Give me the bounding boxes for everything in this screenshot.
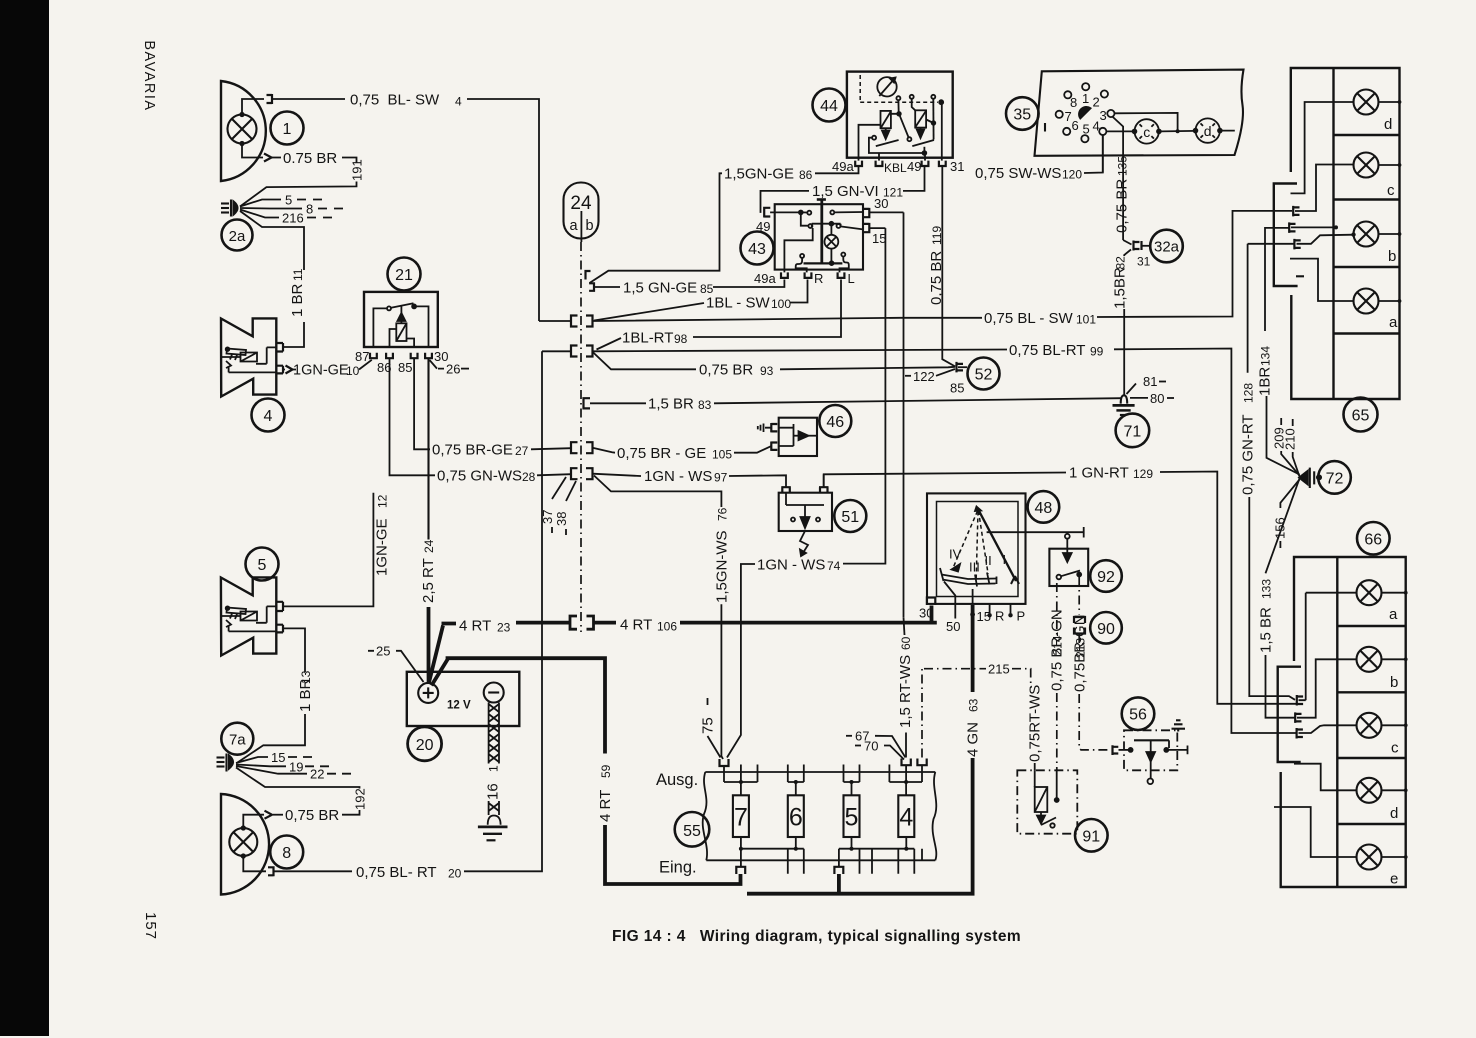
svg-text:1,5GN-GE: 1,5GN-GE: [724, 166, 794, 183]
svg-text:13: 13: [299, 670, 313, 684]
ref circle 51: [834, 500, 866, 532]
wire 1GN-WS 74: [843, 228, 885, 563]
svg-text:72: 72: [1326, 470, 1344, 487]
svg-text:R: R: [995, 609, 1004, 624]
wire 0,75 BR 135 from pin3: [1112, 117, 1123, 241]
wire 1,5 BR 83: [590, 402, 646, 404]
wire 0,75 BR 93: [593, 352, 696, 369]
connector 90 on wire 213: [1078, 577, 1080, 615]
ground 2a symbol: [221, 200, 238, 217]
svg-text:105: 105: [712, 448, 732, 462]
wire 1,5 BR 82 to ground 71: [1124, 250, 1131, 257]
ref circle 35: [1006, 97, 1039, 130]
label 80: [1130, 397, 1148, 399]
bracket at row 85/86: [586, 271, 595, 291]
wire 1GN-GE 12 from horn 5: [283, 493, 373, 607]
svg-text:a: a: [569, 218, 578, 234]
svg-text:2a: 2a: [229, 228, 246, 245]
comp 43 pin brackets 30 and 15 (right): [864, 208, 870, 218]
svg-text:32a: 32a: [1154, 239, 1180, 256]
svg-text:213: 213: [1074, 638, 1088, 658]
svg-text:1GN - WS: 1GN - WS: [757, 556, 825, 573]
ref circle 4: [252, 399, 285, 432]
wire 192 to lamp 8: [236, 768, 360, 789]
svg-text:122: 122: [913, 369, 935, 384]
svg-text:8: 8: [306, 202, 313, 217]
ref circle 65: [1344, 398, 1378, 432]
svg-text:216: 216: [282, 211, 304, 226]
horn 5 terminal tabs: [277, 602, 283, 633]
svg-text:Ausg.: Ausg.: [656, 771, 698, 789]
svg-text:d: d: [1384, 116, 1392, 133]
steering/ignition lock 91: [1017, 770, 1077, 833]
lamp 66d: [1357, 778, 1382, 803]
comp 48 pin 30 bracket: [927, 598, 935, 606]
wire 2,5 RT 24 relay pin30 to battery: [427, 358, 429, 539]
svg-text:91: 91: [1082, 828, 1100, 845]
rear lamp cluster 66 box: [1281, 557, 1406, 887]
svg-text:1,5 RT-WS: 1,5 RT-WS: [897, 655, 914, 728]
svg-text:1,5 GN-GE: 1,5 GN-GE: [623, 280, 697, 297]
thick wire 4 RT 23 battery to bus: [429, 624, 456, 685]
svg-text:93: 93: [760, 364, 774, 378]
svg-text:4: 4: [455, 95, 462, 109]
svg-text:129: 129: [1133, 467, 1153, 481]
relay 21 box: [364, 292, 438, 347]
gauge c: [1133, 119, 1161, 143]
svg-text:II: II: [985, 553, 992, 568]
labels 37 38 with leaders: [552, 477, 576, 501]
svg-text:0,75 BR: 0,75 BR: [285, 807, 339, 824]
svg-text:87: 87: [355, 349, 369, 364]
svg-text:55: 55: [683, 823, 701, 840]
horn 5: [221, 577, 276, 655]
ref circle 2a: [222, 220, 253, 251]
wire 1,5 GN-VI 121: [761, 191, 810, 213]
svg-text:1BL - SW: 1BL - SW: [706, 295, 770, 312]
lamp 65a: [1354, 289, 1379, 314]
svg-text:1: 1: [487, 765, 501, 772]
wire 0,75 BR-GE 27: [414, 358, 430, 449]
wire 209 stub: [1281, 451, 1299, 476]
svg-text:133: 133: [1260, 579, 1274, 599]
svg-text:0,75 GN-WS: 0,75 GN-WS: [437, 468, 522, 485]
svg-text:4 RT: 4 RT: [620, 617, 652, 634]
svg-text:3: 3: [1100, 108, 1107, 123]
svg-text:1,5 BR: 1,5 BR: [648, 396, 694, 413]
svg-text:106: 106: [657, 620, 677, 634]
svg-text:81: 81: [1143, 374, 1157, 389]
svg-text:b: b: [585, 218, 593, 234]
lamp 66b: [1357, 647, 1382, 672]
svg-text:135: 135: [1116, 156, 1130, 176]
lamp 8 housing: [221, 794, 269, 895]
svg-text:KBL: KBL: [884, 161, 907, 175]
svg-text:11: 11: [291, 268, 305, 281]
connector chevron: [264, 154, 272, 162]
svg-text:1GN-GE: 1GN-GE: [293, 363, 349, 379]
ref circle 7a: [221, 723, 253, 755]
labels 67 70: [846, 735, 852, 737]
ref circle 44: [813, 89, 846, 122]
wire 1GN-WS 97: [593, 474, 642, 476]
svg-text:24: 24: [570, 193, 592, 214]
svg-text:76: 76: [716, 507, 730, 521]
svg-text:1 GN-RT: 1 GN-RT: [1069, 465, 1129, 482]
wire 156 stub: [1280, 480, 1299, 509]
svg-text:4 RT: 4 RT: [459, 618, 491, 635]
65 spare pin dash: [1296, 275, 1304, 277]
flasher relay 51: [779, 493, 832, 531]
pin 15 with thick wire 4 GN 63: [970, 612, 975, 617]
svg-text:48: 48: [1035, 500, 1053, 517]
svg-text:c: c: [1143, 124, 1150, 140]
svg-text:a: a: [1389, 314, 1398, 331]
svg-text:86: 86: [799, 168, 813, 182]
rear lamp cluster 65 box: [1291, 68, 1400, 399]
wire 19: [236, 765, 286, 767]
relay 21 pin brackets 87 86 85 30: [370, 353, 377, 359]
wire 214 dash-dot from 92: [1056, 583, 1058, 637]
svg-text:c: c: [1391, 740, 1399, 757]
ref circle 48: [1028, 491, 1060, 523]
svg-text:4 GN: 4 GN: [965, 722, 982, 757]
wire 1,5 GN-GE 86: [590, 173, 723, 283]
svg-text:7a: 7a: [229, 732, 246, 749]
svg-text:10: 10: [346, 364, 360, 378]
wire 0,75 BL-RT 99 row: [542, 350, 1007, 352]
svg-text:b: b: [1390, 674, 1398, 691]
svg-text:5: 5: [285, 193, 292, 208]
svg-text:60: 60: [899, 636, 913, 650]
comp 48 rotary switch: [940, 507, 1019, 619]
fuse 6: [788, 795, 804, 837]
svg-text:7: 7: [734, 804, 748, 832]
svg-text:71: 71: [1124, 424, 1142, 441]
door switch 56: [1122, 697, 1155, 730]
wire 0,75 BL-SW 4: [273, 98, 345, 100]
svg-text:0,75 BR: 0,75 BR: [928, 251, 945, 305]
65 pin a stub: [1290, 259, 1354, 301]
wire from 43 pin15 down: [869, 227, 885, 229]
lamp 66a: [1357, 580, 1382, 605]
svg-text:82: 82: [1114, 256, 1128, 270]
svg-text:27: 27: [515, 444, 529, 458]
svg-text:63: 63: [967, 698, 981, 712]
wire 1 BR 11 to horn 4: [240, 211, 304, 270]
wire 210 stub: [1293, 452, 1300, 477]
svg-text:214: 214: [1051, 635, 1065, 655]
svg-text:0,75 GN-RT: 0,75 GN-RT: [1240, 414, 1257, 495]
svg-text:43: 43: [748, 241, 766, 258]
label 81: [1127, 384, 1137, 395]
fuse 4 feed brackets: [902, 759, 911, 766]
svg-text:c: c: [1387, 182, 1395, 199]
fuse 7: [733, 795, 749, 837]
66 connector housing: [1278, 667, 1301, 762]
svg-text:120: 120: [1062, 168, 1082, 182]
fuse bottom bus 5-4: [839, 837, 914, 866]
svg-text:III: III: [969, 560, 980, 575]
ground 71 symbol: [1121, 395, 1128, 403]
svg-text:50: 50: [946, 619, 960, 634]
mini ground at 56 top right: [1172, 720, 1186, 731]
svg-text:46: 46: [826, 414, 844, 431]
svg-text:75: 75: [700, 717, 717, 734]
wire 1BR 134 ground72 to cluster 65: [1267, 396, 1300, 475]
svg-text:1 BR: 1 BR: [289, 283, 306, 317]
battery plus terminal: [418, 683, 438, 703]
svg-text:5: 5: [845, 804, 859, 832]
svg-text:97: 97: [714, 471, 728, 485]
svg-text:49: 49: [907, 159, 921, 174]
svg-text:1,5BR: 1,5BR: [1112, 267, 1129, 309]
svg-text:5: 5: [258, 557, 267, 574]
wire to pin4 down (120): [1102, 135, 1104, 173]
thick pair brackets at row 4RT: [570, 616, 594, 629]
svg-text:1,5 GN-VI: 1,5 GN-VI: [812, 183, 879, 200]
pair brackets at row 101: [571, 316, 593, 327]
svg-text:b: b: [1388, 248, 1396, 265]
svg-text:100: 100: [771, 297, 791, 311]
wire from 48 to steering lock switch 92: [987, 527, 1084, 538]
svg-text:74: 74: [827, 559, 841, 573]
svg-text:99: 99: [1090, 344, 1104, 358]
connector 32a: [1123, 240, 1131, 245]
battery minus terminal: [484, 683, 504, 703]
lamp 1 (front turn indicator left) housing: [221, 81, 266, 181]
comp 43 internals: [770, 200, 863, 273]
wire lamp1 hot lead: [242, 99, 264, 113]
svg-text:Eing.: Eing.: [659, 859, 697, 877]
svg-text:0,75 BL - SW: 0,75 BL - SW: [984, 310, 1073, 327]
svg-text:BAVARIA: BAVARIA: [141, 40, 157, 111]
fuse bottom bus 7-6: [741, 837, 796, 866]
svg-text:1: 1: [283, 121, 292, 138]
svg-text:52: 52: [975, 367, 993, 384]
svg-text:d: d: [1390, 805, 1398, 822]
hazard switch 44 box: [847, 72, 953, 158]
66 bracket 1 (wire 128 to lamp a): [1297, 695, 1303, 706]
65 pin d stub: [1291, 102, 1354, 193]
ground 72 symbol: [1299, 468, 1321, 488]
fuse 5: [844, 795, 860, 837]
65 bracket 2 (wire 134): [1289, 222, 1295, 233]
svg-text:20: 20: [416, 737, 434, 754]
lamp 65d: [1354, 90, 1379, 115]
svg-text:I: I: [1003, 552, 1007, 567]
ground 7a fan: wire 15: [236, 757, 268, 763]
turn signal switch 43 box: [775, 204, 863, 269]
svg-text:128: 128: [1242, 383, 1256, 403]
svg-text:6: 6: [789, 804, 803, 832]
66 pin d stub: [1294, 764, 1357, 791]
single bracket at row 83: [584, 398, 591, 408]
svg-text:0.75 BR: 0.75 BR: [283, 150, 337, 167]
svg-text:4: 4: [264, 408, 273, 425]
svg-text:35: 35: [1013, 107, 1031, 124]
svg-text:26: 26: [446, 362, 460, 377]
svg-text:38: 38: [554, 512, 569, 526]
ref circle 43: [741, 232, 774, 265]
svg-text:20: 20: [448, 867, 462, 881]
svg-text:0,75 BL- RT: 0,75 BL- RT: [356, 864, 437, 881]
65 bracket 3 (wire 128 to lamp b): [1294, 239, 1300, 250]
svg-text:5: 5: [1083, 122, 1090, 137]
thick wire 4 RT 59 battery to fuse box: [432, 658, 606, 753]
ref circle 46: [819, 405, 851, 437]
66 bracket 3 (wire 99 to lamp c): [1297, 728, 1303, 739]
connector on wire 4: [267, 94, 273, 104]
wire 26 stub from pin 30: [430, 360, 445, 369]
ref circle 20: [408, 727, 442, 761]
wire 0,75 BL-RT 20: [243, 857, 266, 871]
svg-text:25: 25: [376, 644, 390, 659]
cluster wiring: [1115, 113, 1178, 131]
svg-text:1,5GN-WS: 1,5GN-WS: [714, 530, 731, 603]
ref circle 8: [270, 836, 303, 869]
svg-text:12: 12: [376, 494, 390, 508]
fuse box 55 outline: [703, 772, 937, 860]
fuse 7 Eing bracket: [736, 867, 745, 874]
comp 44 pin brackets 49a KBL 49 31: [855, 161, 862, 166]
svg-text:4 RT: 4 RT: [597, 790, 614, 822]
svg-text:0,75 BR: 0,75 BR: [699, 362, 753, 379]
svg-text:56: 56: [1129, 707, 1147, 724]
lamp 1 bulb: [228, 113, 257, 145]
wire 1GN-GE 10: [283, 369, 296, 371]
svg-text:19: 19: [289, 759, 303, 774]
battery 20 box: [407, 672, 520, 726]
svg-text:IV: IV: [949, 547, 962, 562]
svg-text:98: 98: [674, 332, 688, 346]
wire 215 dash-dot: [922, 669, 986, 758]
fuse 5/4 Eing bracket: [834, 867, 843, 874]
svg-text:30: 30: [919, 606, 933, 621]
svg-text:101: 101: [1076, 313, 1096, 327]
svg-text:80: 80: [1150, 391, 1164, 406]
wire 25 leader: [368, 651, 424, 682]
ref circle 1: [271, 112, 304, 145]
svg-text:21: 21: [395, 267, 413, 284]
66 bracket 2 (wire 133 to lamp b): [1295, 712, 1301, 723]
svg-text:a: a: [1389, 606, 1398, 623]
wire 1,5 GN-GE 85: [594, 286, 620, 288]
svg-text:215: 215: [988, 662, 1010, 677]
svg-text:191: 191: [350, 159, 365, 181]
svg-text:0,75 BR - GE: 0,75 BR - GE: [617, 445, 706, 462]
ground 2a fan wires: [240, 200, 281, 207]
ref circle 5: [246, 548, 279, 581]
connector 52: [957, 362, 964, 373]
comp 43 pin bracket 49 (left): [764, 207, 770, 218]
wire 1,5 BR 133 ground72 to cluster 66: [1266, 479, 1300, 574]
battery earth strap 16 (hatched): [489, 703, 499, 764]
gauge d: [1194, 118, 1222, 142]
svg-text:66: 66: [1364, 531, 1382, 548]
wire 1BL-RT 98: [597, 338, 622, 350]
66 pin e stub: [1274, 807, 1357, 857]
ref circle 21: [388, 258, 421, 291]
svg-text:2,5 RT: 2,5 RT: [420, 558, 437, 603]
svg-text:1GN-GE: 1GN-GE: [374, 518, 391, 576]
svg-text:30: 30: [874, 196, 888, 211]
horn 4: [221, 318, 276, 396]
horn 4 terminal tabs: [277, 343, 283, 373]
connector 24 a/b oval: [564, 183, 599, 239]
connector 24 column dash-dot line: [580, 242, 582, 632]
svg-text:51: 51: [841, 509, 859, 526]
wire 1 BR 13 from horn 5 to ground 7a: [283, 628, 305, 672]
connector chevron on wire 10: [286, 366, 293, 374]
wire 122 label: [905, 375, 911, 377]
horn 4 internals: [221, 347, 276, 372]
svg-text:R: R: [814, 271, 823, 286]
svg-text:12 V: 12 V: [447, 700, 471, 712]
svg-text:4: 4: [899, 804, 913, 832]
svg-text:15: 15: [872, 231, 886, 246]
wire 0,75 BR 119: [942, 167, 955, 367]
svg-text:1BL-RT: 1BL-RT: [622, 330, 673, 347]
wire 1,5 RT-WS 60: [903, 212, 905, 617]
svg-text:210: 210: [1283, 428, 1298, 450]
svg-text:0,75 BR-GE: 0,75 BR-GE: [432, 442, 513, 459]
wire lamp1 ground lead: [242, 145, 263, 158]
wire 4 continues to connector 24 column: [467, 99, 539, 321]
wire 22: [236, 766, 307, 774]
wire 1BL-SW 100: [594, 303, 704, 321]
svg-text:83: 83: [698, 398, 712, 412]
scan edge black strip: [0, 0, 49, 1036]
ref circle 66: [1357, 522, 1390, 555]
svg-text:0,75 BL- SW: 0,75 BL- SW: [350, 92, 440, 109]
wire 0,75 GN-RT 128: [1248, 244, 1294, 373]
svg-text:0,75 BR: 0,75 BR: [1114, 179, 1131, 233]
comp 43 pin brackets 49a R L (bottom): [781, 272, 788, 278]
lamp 66e: [1357, 845, 1382, 870]
pair brackets at row 98/99: [571, 346, 593, 357]
svg-text:0,75 BL-RT: 0,75 BL-RT: [1009, 342, 1085, 359]
svg-text:24: 24: [422, 539, 436, 553]
thick connector pair on 24 column: [594, 621, 616, 625]
wire 0,75 BL-SW 101 row: [539, 318, 982, 321]
lamp 66c: [1357, 713, 1382, 738]
svg-text:70: 70: [864, 739, 878, 754]
svg-text:92: 92: [1097, 569, 1115, 586]
lamp 65c: [1354, 153, 1379, 178]
wire 0,75 GN-WS 28: [390, 358, 436, 475]
wire 1,5GN-WS 76: [594, 476, 721, 508]
ignition switch 48 box: [927, 493, 1026, 604]
svg-text:1BR: 1BR: [1257, 367, 1274, 396]
svg-text:134: 134: [1259, 346, 1273, 366]
pair brackets at row 27: [571, 442, 593, 453]
65 bracket 1 (wire 101 to lamp c): [1293, 206, 1299, 217]
brake switch 46: [779, 418, 817, 456]
switch 92 box: [1049, 549, 1088, 586]
svg-text:4: 4: [1093, 119, 1100, 134]
ground 7a symbol: [217, 754, 234, 772]
svg-text:157: 157: [142, 912, 159, 940]
svg-text:P: P: [1017, 609, 1026, 624]
fuse 4: [898, 795, 914, 837]
svg-text:85: 85: [950, 381, 964, 396]
instrument cluster 35 panel: [1035, 70, 1244, 156]
65 connector housing: [1274, 184, 1298, 287]
relay 21 internals: [373, 303, 428, 347]
svg-text:44: 44: [820, 98, 838, 115]
svg-text:FIG 14 : 4 Wiring diagram,: FIG 14 : 4 Wiring diagram, typical signa…: [612, 928, 1021, 945]
